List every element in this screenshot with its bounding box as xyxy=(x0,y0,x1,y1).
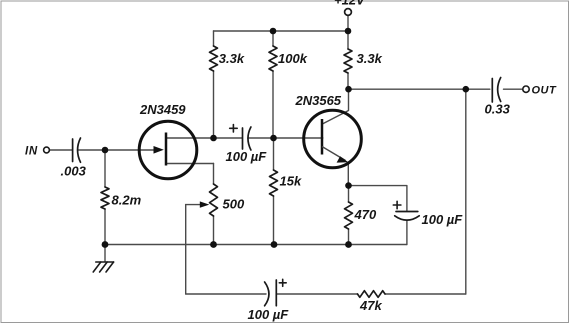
svg-text:100 µF: 100 µF xyxy=(226,149,268,164)
svg-text:3.3k: 3.3k xyxy=(357,51,383,66)
svg-text:100 µF: 100 µF xyxy=(248,307,290,322)
wire top rail xyxy=(214,30,349,32)
wire feedback riser up to output node xyxy=(465,89,467,294)
node input xyxy=(102,147,109,154)
wire bottom feedback left to C5 xyxy=(186,293,266,295)
wire input node down to 8.2m xyxy=(104,150,106,187)
wire 3.3k R1 branch top xyxy=(213,31,215,46)
wire pot wiper feedback down xyxy=(185,205,187,294)
wire bypass cap C4 to ground rail xyxy=(406,221,408,245)
node drain xyxy=(210,135,217,142)
node output feedback xyxy=(463,86,470,93)
node base xyxy=(270,135,277,142)
svg-text:470: 470 xyxy=(354,207,377,222)
svg-text:IN: IN xyxy=(25,146,38,158)
node rail 470 xyxy=(345,241,352,248)
svg-text:47k: 47k xyxy=(359,298,382,313)
svg-text:500: 500 xyxy=(223,197,245,212)
wire C5 to 47k xyxy=(276,293,357,295)
wire C2 to base node and base lead of Q2 xyxy=(248,137,323,139)
plus sign of C4 xyxy=(393,201,401,208)
resistor R3 3.3k xyxy=(344,49,352,73)
wire base node down to 15k xyxy=(273,138,275,170)
node collector xyxy=(345,86,352,93)
plus sign of C5 xyxy=(279,279,286,286)
node rail 15k xyxy=(271,241,278,248)
potentiometer R5 500 xyxy=(210,184,218,216)
capacitor C1 .003 xyxy=(73,138,81,162)
wire 100k R2 branch top xyxy=(272,31,274,46)
svg-text:15k: 15k xyxy=(280,174,302,189)
svg-text:.003: .003 xyxy=(61,164,87,179)
wire 470 to ground rail xyxy=(348,229,350,245)
resistor R1 3.3k xyxy=(210,46,218,71)
resistor R7 470 xyxy=(345,202,353,229)
wire C1 to input node xyxy=(78,149,105,151)
node top rail / supply xyxy=(345,28,352,35)
svg-text:100k: 100k xyxy=(278,51,308,66)
wire 15k to ground rail xyxy=(273,196,275,245)
resistor R6 15k xyxy=(270,170,278,196)
transistor Q1 2N3459 body xyxy=(139,121,197,179)
wire emitter node down to 470 xyxy=(348,186,350,202)
wire pot R5 to ground rail xyxy=(213,216,215,245)
resistor R8 47k xyxy=(358,291,386,298)
wire source lead of Q1 xyxy=(166,163,214,165)
capacitor C3 0.33 output xyxy=(492,78,500,103)
svg-text:2N3459: 2N3459 xyxy=(139,102,186,117)
terminal +12V xyxy=(345,9,352,16)
svg-text:OUT: OUT xyxy=(532,85,558,97)
wire 47k to right riser xyxy=(385,293,466,295)
wire input terminal to C1 xyxy=(49,149,72,151)
node rail pot xyxy=(210,241,217,248)
terminal IN xyxy=(44,147,50,153)
wire emitter of Q2 down to emitter node xyxy=(347,163,349,186)
wire 3.3k R1 branch bottom to drain node xyxy=(213,71,215,138)
capacitor C5 100uF feedback xyxy=(265,280,277,306)
wire 8.2m to ground rail xyxy=(104,209,106,245)
wire output cap to OUT terminal xyxy=(504,88,523,90)
resistor R4 8.2m xyxy=(101,187,109,209)
wire emitter node to bypass cap C4 xyxy=(349,186,407,211)
potentiometer wiper arrowhead xyxy=(200,201,210,207)
wire gate lead of Q1 xyxy=(105,149,157,151)
wire pot wiper arrow lead xyxy=(186,204,201,206)
node rail ground xyxy=(102,241,109,248)
svg-text:2N3565: 2N3565 xyxy=(295,93,342,108)
wire +12V drop xyxy=(347,15,349,31)
wire drain lead of Q1 xyxy=(166,137,214,139)
svg-text:100 µF: 100 µF xyxy=(422,212,464,227)
wire 100k R2 branch bottom xyxy=(272,71,274,138)
ground symbol xyxy=(93,262,113,272)
transistor Q2 emitter arrowhead xyxy=(337,156,349,162)
transistor Q1 gate arrowhead xyxy=(154,146,164,154)
wire drain node to coupling cap C2 xyxy=(214,137,243,139)
plus sign of C2 xyxy=(230,125,238,132)
transistor Q2 2N3565 body xyxy=(304,110,362,168)
wire 3.3k R3 branch top xyxy=(347,31,349,49)
svg-text:3.3k: 3.3k xyxy=(219,51,245,66)
svg-text:+12V: +12V xyxy=(334,0,366,8)
terminal OUT xyxy=(523,86,529,92)
wire ground drop xyxy=(104,245,106,262)
wire ground rail xyxy=(105,244,407,246)
capacitor C4 100uF emitter bypass xyxy=(395,212,420,221)
wire collector node to output cap xyxy=(348,88,490,90)
transistor Q2 emitter lead xyxy=(322,147,346,161)
resistor R2 100k xyxy=(269,46,277,71)
transistor Q2 base bar xyxy=(321,119,324,155)
svg-text:8.2m: 8.2m xyxy=(112,193,142,208)
wire collector into Q2 xyxy=(323,89,349,124)
node emitter xyxy=(345,182,352,189)
wire 3.3k R3 branch bottom to collector node xyxy=(347,73,349,89)
transistor Q1 channel bar xyxy=(165,133,168,166)
capacitor C2 100uF coupling xyxy=(243,127,251,150)
wire source down to pot R5 xyxy=(213,164,215,185)
node top rail / 100k xyxy=(270,28,277,35)
svg-text:0.33: 0.33 xyxy=(485,102,511,117)
